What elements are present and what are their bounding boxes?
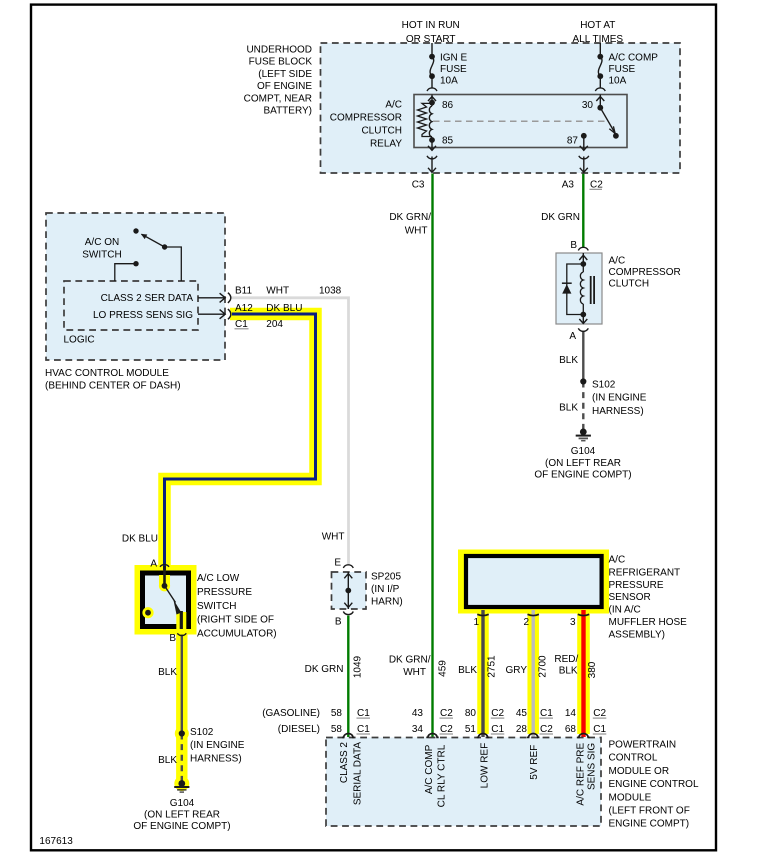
- svg-text:(IN ENGINE: (IN ENGINE: [592, 393, 647, 404]
- svg-text:B: B: [335, 617, 342, 628]
- svg-text:(ON LEFT REAR: (ON LEFT REAR: [144, 809, 220, 820]
- svg-text:BLK: BLK: [559, 665, 578, 676]
- svg-text:(ON LEFT REAR: (ON LEFT REAR: [545, 458, 621, 469]
- svg-text:C1: C1: [491, 724, 504, 735]
- svg-text:CLUTCH: CLUTCH: [361, 126, 402, 137]
- svg-text:C2: C2: [440, 724, 453, 735]
- svg-text:OF ENGINE COMPT): OF ENGINE COMPT): [534, 470, 631, 481]
- svg-text:2751: 2751: [487, 655, 498, 678]
- svg-text:87: 87: [567, 136, 579, 147]
- svg-text:A/C: A/C: [609, 555, 626, 566]
- svg-text:UNDERHOOD: UNDERHOOD: [246, 45, 312, 56]
- svg-text:RELAY: RELAY: [370, 139, 402, 150]
- svg-text:30: 30: [582, 100, 594, 111]
- svg-text:COMPRESSOR: COMPRESSOR: [330, 113, 402, 124]
- svg-text:B: B: [570, 240, 577, 251]
- svg-text:A/C COMP: A/C COMP: [424, 744, 435, 794]
- svg-text:DK GRN: DK GRN: [305, 664, 344, 675]
- svg-text:S102: S102: [190, 727, 214, 738]
- svg-text:SP205: SP205: [371, 572, 401, 583]
- svg-text:CLASS 2 SER DATA: CLASS 2 SER DATA: [101, 293, 194, 304]
- svg-text:1049: 1049: [353, 655, 364, 678]
- svg-text:E: E: [334, 558, 341, 569]
- svg-text:HVAC CONTROL MODULE: HVAC CONTROL MODULE: [45, 368, 169, 379]
- svg-text:PRESSURE: PRESSURE: [197, 587, 252, 598]
- svg-text:(BEHIND CENTER OF DASH): (BEHIND CENTER OF DASH): [45, 381, 181, 392]
- svg-text:BATTERY): BATTERY): [263, 106, 312, 117]
- svg-text:HOT IN RUN: HOT IN RUN: [402, 20, 460, 31]
- svg-text:DK GRN/: DK GRN/: [389, 655, 431, 666]
- svg-text:C1: C1: [357, 724, 370, 735]
- svg-text:A/C: A/C: [385, 100, 402, 111]
- svg-text:ENGINE COMPT): ENGINE COMPT): [609, 819, 690, 830]
- svg-text:GRY: GRY: [506, 665, 528, 676]
- svg-text:FUSE: FUSE: [440, 64, 467, 75]
- svg-text:CL RLY CTRL: CL RLY CTRL: [436, 744, 447, 807]
- svg-text:BLK: BLK: [158, 755, 177, 766]
- svg-text:ENGINE CONTROL: ENGINE CONTROL: [609, 779, 699, 790]
- svg-text:45: 45: [516, 708, 528, 719]
- svg-text:BLK: BLK: [158, 667, 177, 678]
- svg-text:SWITCH: SWITCH: [82, 250, 121, 261]
- svg-text:(IN ENGINE: (IN ENGINE: [190, 740, 245, 751]
- svg-text:SENSOR: SENSOR: [609, 592, 651, 603]
- svg-text:2700: 2700: [538, 655, 549, 678]
- svg-text:WHT: WHT: [405, 226, 428, 237]
- svg-text:HARN): HARN): [371, 597, 403, 608]
- svg-text:HARNESS): HARNESS): [592, 406, 644, 417]
- svg-text:A: A: [150, 559, 157, 570]
- svg-text:CLUTCH: CLUTCH: [609, 279, 650, 290]
- svg-text:CONTROL: CONTROL: [609, 753, 658, 764]
- svg-text:BLK: BLK: [559, 403, 578, 414]
- svg-text:58: 58: [331, 724, 343, 735]
- svg-text:HOT AT: HOT AT: [580, 20, 615, 31]
- svg-text:68: 68: [565, 724, 577, 735]
- svg-text:167613: 167613: [39, 836, 73, 847]
- svg-text:DK BLU: DK BLU: [266, 303, 302, 314]
- svg-text:B: B: [169, 633, 176, 644]
- svg-text:380: 380: [587, 661, 598, 678]
- svg-text:MODULE OR: MODULE OR: [609, 766, 670, 777]
- svg-text:80: 80: [465, 708, 477, 719]
- svg-text:(GASOLINE): (GASOLINE): [262, 708, 320, 719]
- svg-text:A: A: [569, 331, 576, 342]
- svg-text:A/C REF PRE: A/C REF PRE: [576, 742, 587, 805]
- svg-text:HARNESS): HARNESS): [190, 753, 242, 764]
- svg-text:RED/: RED/: [554, 654, 578, 665]
- svg-text:10A: 10A: [440, 76, 458, 87]
- svg-text:REFRIGERANT: REFRIGERANT: [609, 567, 681, 578]
- svg-text:C1: C1: [235, 319, 248, 330]
- svg-text:OF ENGINE: OF ENGINE: [257, 81, 312, 92]
- svg-text:MUFFLER HOSE: MUFFLER HOSE: [609, 617, 688, 628]
- svg-text:DK BLU: DK BLU: [122, 534, 158, 545]
- svg-text:ASSEMBLY): ASSEMBLY): [609, 630, 666, 641]
- svg-text:LO PRESS SENS SIG: LO PRESS SENS SIG: [93, 310, 193, 321]
- svg-text:COMPRESSOR: COMPRESSOR: [609, 267, 681, 278]
- svg-text:(IN I/P: (IN I/P: [371, 584, 400, 595]
- svg-text:A/C COMP: A/C COMP: [609, 53, 659, 64]
- svg-text:CLASS 2: CLASS 2: [339, 742, 350, 784]
- svg-text:SENS SIG: SENS SIG: [587, 743, 598, 790]
- svg-text:SWITCH: SWITCH: [197, 601, 236, 612]
- svg-text:(LEFT SIDE: (LEFT SIDE: [258, 69, 312, 80]
- svg-text:POWERTRAIN: POWERTRAIN: [609, 740, 677, 751]
- svg-text:5V REF: 5V REF: [529, 745, 540, 780]
- svg-text:B11: B11: [235, 286, 252, 297]
- svg-text:WHT: WHT: [322, 532, 345, 543]
- svg-text:COMPT, NEAR: COMPT, NEAR: [244, 93, 312, 104]
- svg-text:28: 28: [516, 724, 528, 735]
- svg-text:(RIGHT SIDE OF: (RIGHT SIDE OF: [197, 615, 274, 626]
- svg-text:WHT: WHT: [403, 667, 426, 678]
- svg-text:IGN E: IGN E: [440, 53, 468, 64]
- svg-text:58: 58: [331, 708, 343, 719]
- svg-text:BLK: BLK: [458, 665, 477, 676]
- svg-text:FUSE BLOCK: FUSE BLOCK: [249, 57, 313, 68]
- svg-text:85: 85: [442, 136, 454, 147]
- svg-text:OR START: OR START: [406, 34, 456, 45]
- svg-text:A/C LOW: A/C LOW: [197, 573, 240, 584]
- svg-text:86: 86: [442, 100, 454, 111]
- svg-text:SERIAL DATA: SERIAL DATA: [352, 742, 363, 805]
- svg-text:FUSE: FUSE: [609, 64, 636, 75]
- svg-text:WHT: WHT: [266, 286, 289, 297]
- svg-text:3: 3: [570, 617, 576, 628]
- svg-text:C3: C3: [412, 180, 425, 191]
- svg-text:S102: S102: [592, 380, 616, 391]
- svg-text:51: 51: [465, 724, 477, 735]
- svg-text:A3: A3: [562, 180, 575, 191]
- svg-text:G104: G104: [571, 446, 596, 457]
- svg-text:ACCUMULATOR): ACCUMULATOR): [197, 629, 277, 640]
- svg-text:14: 14: [565, 708, 577, 719]
- svg-text:C2: C2: [540, 724, 553, 735]
- svg-text:PRESSURE: PRESSURE: [609, 580, 664, 591]
- svg-text:(IN A/C: (IN A/C: [609, 604, 641, 615]
- svg-text:G104: G104: [170, 798, 195, 809]
- svg-text:ALL TIMES: ALL TIMES: [573, 34, 624, 45]
- svg-text:A/C ON: A/C ON: [85, 237, 119, 248]
- svg-text:1038: 1038: [319, 286, 342, 297]
- svg-text:(DIESEL): (DIESEL): [278, 724, 320, 735]
- svg-text:A/C: A/C: [609, 256, 626, 267]
- svg-text:10A: 10A: [609, 76, 627, 87]
- svg-text:C1: C1: [593, 724, 606, 735]
- svg-text:34: 34: [412, 724, 424, 735]
- svg-text:DK GRN/: DK GRN/: [389, 212, 431, 223]
- svg-text:(LEFT FRONT OF: (LEFT FRONT OF: [609, 806, 690, 817]
- svg-text:459: 459: [438, 660, 449, 677]
- svg-text:1: 1: [473, 617, 479, 628]
- svg-text:OF ENGINE COMPT): OF ENGINE COMPT): [133, 821, 230, 832]
- svg-text:204: 204: [266, 319, 283, 330]
- svg-text:LOGIC: LOGIC: [64, 335, 95, 346]
- svg-text:43: 43: [412, 708, 424, 719]
- svg-text:DK GRN: DK GRN: [541, 212, 580, 223]
- svg-text:A12: A12: [235, 303, 253, 314]
- svg-text:MODULE: MODULE: [609, 792, 652, 803]
- svg-text:2: 2: [523, 617, 529, 628]
- svg-text:BLK: BLK: [559, 355, 578, 366]
- svg-text:LOW REF: LOW REF: [480, 743, 491, 789]
